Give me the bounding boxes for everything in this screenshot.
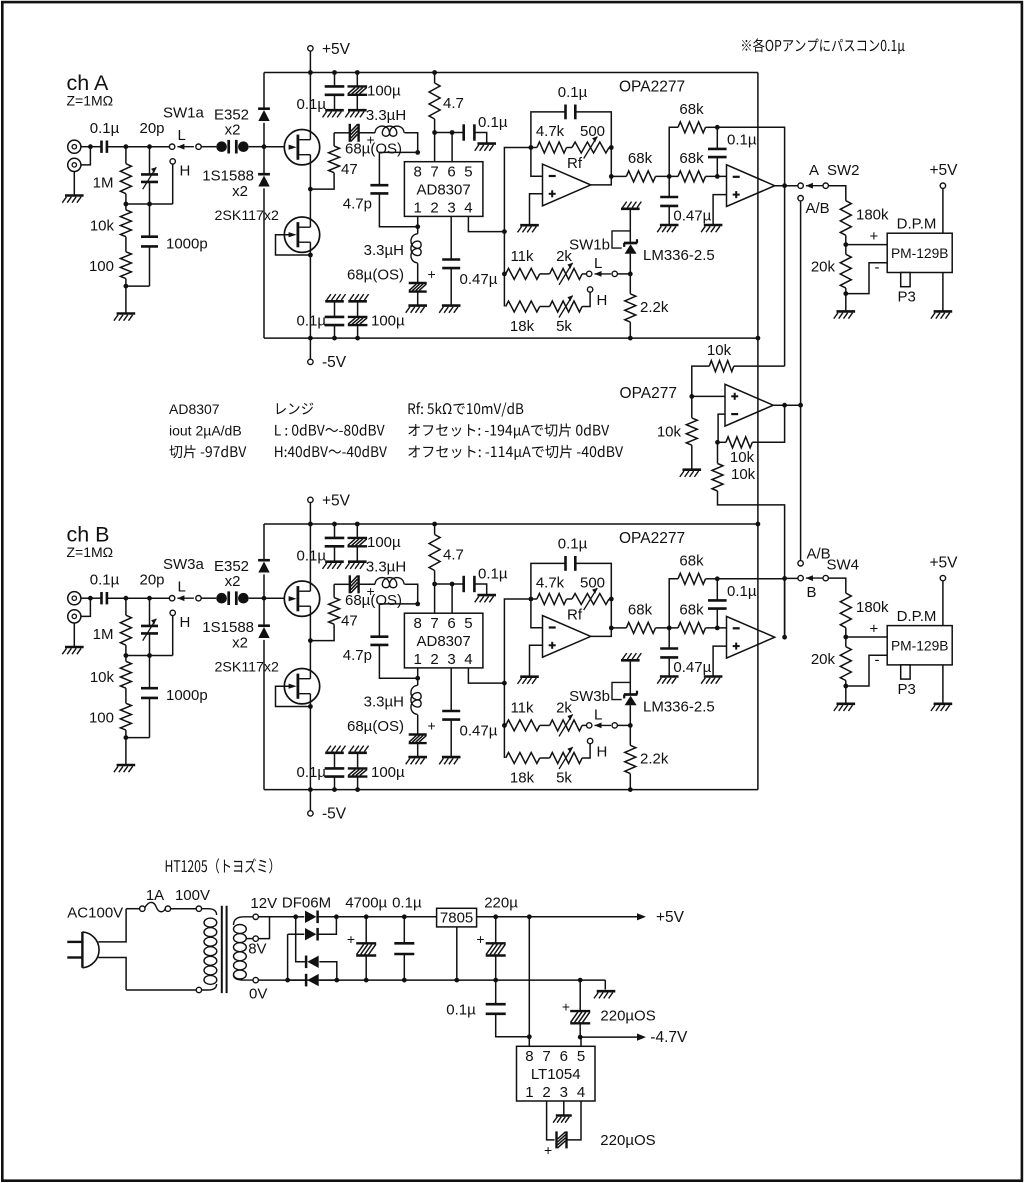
svg-text:H: H — [597, 292, 608, 309]
ground LT1054 pin3 — [553, 1116, 572, 1123]
wire jacks to input cap — [81, 144, 102, 165]
svg-text:4.7: 4.7 — [443, 95, 464, 112]
svg-text:SW3b: SW3b — [569, 688, 610, 705]
rail 7805 out — [477, 914, 641, 919]
wire E352 to input node — [263, 123, 265, 147]
resistor 10k feedback — [718, 405, 785, 466]
svg-text:+: + — [870, 228, 879, 245]
text AD8307 specs col1 — [169, 401, 246, 458]
ground jacks — [62, 196, 83, 203]
svg-text:Rf: Rf — [567, 607, 583, 624]
svg-text:OPA2277: OPA2277 — [619, 530, 685, 547]
svg-text:H: H — [180, 614, 191, 631]
ground attenuator — [114, 314, 135, 321]
capacitor 0.47u filter — [660, 176, 711, 225]
switch SW3a — [163, 556, 205, 631]
wire 2k to L contact — [582, 273, 586, 275]
ground op1 plus — [518, 225, 539, 232]
resistor 180k — [840, 201, 889, 236]
svg-text:5: 5 — [464, 164, 472, 181]
ground 100u top — [345, 562, 366, 569]
svg-text:+: + — [870, 620, 879, 637]
terminal -5V ch B — [308, 790, 347, 823]
wire attenuator H tap — [124, 164, 173, 210]
wire jacks to input cap — [81, 596, 102, 617]
rail -5V bottom — [264, 787, 758, 792]
text note bypass — [742, 38, 905, 54]
svg-text:SW1a: SW1a — [163, 105, 205, 122]
svg-text:11k: 11k — [510, 700, 534, 717]
svg-text:10k: 10k — [90, 669, 115, 686]
resistor 20k — [811, 254, 851, 288]
svg-text:SW3a: SW3a — [163, 556, 205, 573]
diode D1 bridge — [305, 911, 318, 924]
op-amp U1b OPA2277 — [727, 165, 775, 207]
ground 0.47u filter — [657, 225, 678, 232]
svg-text:0.1µ: 0.1µ — [297, 548, 327, 565]
svg-text:100µ: 100µ — [371, 764, 405, 781]
svg-text:1000p: 1000p — [166, 687, 208, 704]
resistor 68k feedback — [669, 553, 719, 628]
resistor 100 — [89, 252, 131, 279]
wire op1 minus input — [531, 148, 543, 177]
wire 10k to 100 — [125, 237, 127, 252]
wire 1S1588 to -5V rail — [263, 640, 265, 790]
terminal 8V — [248, 936, 266, 958]
resistor 2.2k — [625, 745, 669, 773]
svg-text:68µ(OS): 68µ(OS) — [347, 267, 404, 284]
svg-text:1: 1 — [414, 200, 422, 217]
wire E352 to input node — [263, 574, 265, 598]
svg-text:+: + — [562, 999, 570, 1015]
transistor Q1 2SK117 upper — [284, 73, 319, 165]
wire op1 plus to ground — [530, 194, 543, 225]
svg-text:6: 6 — [560, 1048, 568, 1065]
svg-text:DF06M: DF06M — [282, 895, 331, 912]
svg-text:0.47µ: 0.47µ — [673, 208, 711, 225]
svg-text:7: 7 — [542, 1048, 550, 1065]
capacitor 100u OS bottom — [348, 301, 405, 338]
wire input node to 1S1588 — [263, 599, 265, 626]
wire 11k to 2k — [540, 273, 550, 275]
svg-text:x2: x2 — [232, 183, 248, 200]
wire coil to pin8 node — [379, 584, 420, 606]
svg-text:2SK117x2: 2SK117x2 — [215, 660, 280, 676]
wire fuse to primary — [171, 887, 210, 909]
wire op2 plus to ground — [713, 195, 726, 225]
capacitor 220uOS out — [562, 980, 656, 1039]
svg-text:-5V: -5V — [322, 354, 347, 371]
svg-text:-4.7V: -4.7V — [650, 1029, 688, 1046]
wire pin7 row — [432, 130, 464, 162]
wire plug to transformer — [98, 909, 126, 990]
resistor 500 trimmer Rf — [567, 123, 614, 172]
capacitor 4.7p — [343, 604, 418, 678]
diode LM336-2.5 reference — [612, 231, 715, 264]
svg-text:68µ(OS): 68µ(OS) — [345, 592, 402, 609]
resistor 4.7k Rf — [529, 575, 567, 605]
svg-text:B: B — [807, 584, 817, 601]
capacitor 0.1u bottom — [297, 753, 345, 790]
svg-text:0.1µ: 0.1µ — [478, 114, 508, 131]
svg-text:2.2k: 2.2k — [640, 751, 669, 768]
wire clamp chain upper — [263, 73, 265, 109]
inductor 3.3uH upper — [366, 559, 406, 588]
svg-text:220µOS: 220µOS — [600, 1132, 655, 1149]
svg-text:2: 2 — [430, 651, 438, 668]
wire input row to SW — [107, 144, 169, 149]
svg-text:8: 8 — [525, 1048, 533, 1065]
capacitor 0.47u pin3 — [442, 216, 497, 305]
svg-text:PM-129B: PM-129B — [891, 638, 949, 653]
svg-text:100: 100 — [89, 258, 114, 275]
wire pin1 node — [415, 216, 420, 229]
svg-text:2: 2 — [542, 1084, 550, 1101]
wire op1 output — [591, 599, 614, 636]
wire FET2 gate loop — [276, 686, 313, 709]
wire FET1 source to node — [308, 606, 313, 643]
svg-text:68k: 68k — [679, 553, 704, 570]
ground 0.1u pin6 — [475, 595, 496, 602]
wire to op2 minus — [706, 626, 727, 631]
capacitor 68u OS lower — [347, 263, 436, 305]
wire ground to LM336 — [629, 209, 631, 243]
capacitor 0.1u pin6 — [464, 566, 508, 596]
svg-text:10k: 10k — [657, 424, 682, 441]
wire output — [773, 403, 803, 408]
wire input row to SW — [107, 596, 169, 601]
IC AD8307 — [404, 162, 483, 217]
svg-text:0.1µ: 0.1µ — [558, 84, 588, 101]
svg-text:1S1588: 1S1588 — [202, 619, 254, 636]
wire SW common to 180k — [829, 186, 846, 201]
resistor 4.7k Rf — [529, 123, 567, 153]
wire op1 plus to ground — [530, 645, 543, 676]
svg-text:20p: 20p — [139, 120, 164, 137]
svg-text:8: 8 — [414, 164, 422, 181]
svg-text:220µ: 220µ — [484, 895, 518, 912]
wire feedback to output — [717, 127, 784, 185]
ground meter — [931, 704, 952, 711]
svg-text:+5V: +5V — [929, 162, 958, 179]
svg-text:AD8307: AD8307 — [416, 182, 470, 199]
RCA jack J1 ch B — [68, 592, 81, 605]
capacitor 0.1u par 68k — [708, 579, 757, 628]
wire SW common to 180k — [829, 578, 846, 593]
svg-text:4.7p: 4.7p — [343, 196, 372, 213]
wire FET2 source to rail — [309, 694, 311, 790]
svg-text:1M: 1M — [93, 626, 114, 643]
RCA jack J2 ch B — [68, 610, 81, 623]
capacitor 20p variable — [139, 572, 164, 656]
svg-text:+5V: +5V — [322, 493, 351, 510]
wire FET1 source to node — [308, 155, 313, 192]
wire plus node — [689, 394, 725, 399]
wire 180k to plus — [843, 620, 887, 646]
svg-text:68k: 68k — [679, 101, 704, 118]
svg-text:H: H — [180, 163, 191, 180]
svg-text:100: 100 — [89, 710, 114, 727]
svg-text:2: 2 — [430, 200, 438, 217]
wire op2 plus to ground — [713, 646, 726, 676]
svg-text:2SK117x2: 2SK117x2 — [215, 208, 280, 224]
capacitor 0.1u bypass top — [297, 73, 345, 114]
ground 100u bottom — [348, 294, 368, 301]
wire FET2 gate loop — [276, 235, 313, 258]
capacitor 68u OS bead — [334, 575, 402, 609]
wire 18k to 5k — [540, 757, 550, 759]
wire minus to feedback — [715, 414, 725, 445]
wire CRD to clamp node — [249, 596, 267, 601]
svg-text:PM-129B: PM-129B — [891, 246, 949, 261]
arrow -4.7V out — [580, 1029, 688, 1046]
svg-text:12V: 12V — [250, 895, 277, 912]
resistor 2k trimmer — [550, 700, 583, 737]
capacitor 0.1u par 68k — [708, 127, 757, 176]
svg-text:68k: 68k — [628, 150, 653, 167]
svg-text:5: 5 — [577, 1048, 585, 1065]
resistor 5k trimmer — [550, 747, 583, 787]
svg-text:0.1µ: 0.1µ — [297, 96, 327, 113]
resistor 2.2k — [625, 294, 669, 322]
meter PM-129B — [887, 216, 952, 306]
rail PSU ground — [259, 978, 606, 983]
capacitor 0.1u input — [90, 572, 120, 605]
diode 1S1588 clamp x2 — [202, 168, 270, 201]
terminal +5V ch A — [308, 41, 351, 73]
capacitor 0.1u Rf loop — [531, 536, 611, 600]
svg-text:8V: 8V — [248, 941, 266, 958]
svg-text:0.1µ: 0.1µ — [727, 132, 757, 149]
capacitor 20p variable — [139, 120, 164, 204]
rail +5V top — [264, 70, 758, 75]
resistor 1M — [93, 599, 132, 646]
wire attenuator H tap — [124, 616, 173, 662]
ground op2 plus — [701, 225, 722, 232]
wire 68k junction — [656, 174, 679, 179]
wire 10k to 100 — [125, 688, 127, 703]
ground 0.1u bottom — [325, 294, 345, 301]
text ch B title — [67, 523, 114, 561]
switch SW1a — [163, 105, 205, 180]
wire input node to 1S1588 — [263, 147, 265, 174]
resistor 11k — [506, 248, 540, 279]
svg-text:0.47µ: 0.47µ — [460, 271, 498, 288]
IC 7805 regulator — [437, 908, 477, 980]
svg-text:3: 3 — [447, 651, 455, 668]
resistor 18k — [506, 753, 540, 787]
svg-text:+5V: +5V — [656, 909, 685, 926]
capacitor 0.47u pin3 — [442, 668, 497, 757]
svg-text:0.1µ: 0.1µ — [297, 313, 327, 330]
svg-text:500: 500 — [580, 575, 605, 592]
resistor 68k series1 — [626, 150, 655, 182]
capacitor 0.1u lt1054 — [446, 980, 529, 1037]
resistor 10k attenuator — [90, 661, 132, 688]
transistor Q2 2SK117 lower — [215, 189, 320, 252]
svg-text:0.1µ: 0.1µ — [558, 536, 588, 553]
svg-text:+5V: +5V — [322, 41, 351, 58]
svg-text:5k: 5k — [556, 770, 572, 787]
ground 0.1u bypass top — [323, 562, 344, 569]
svg-text:2.2k: 2.2k — [640, 299, 669, 316]
ground op2 plus — [701, 677, 722, 684]
resistor 1M — [93, 147, 132, 194]
resistor 100 — [89, 703, 131, 730]
ground 0.1u pin6 — [475, 144, 496, 151]
RCA jack J2 ch A — [68, 158, 81, 171]
resistor 5k trimmer — [550, 296, 583, 336]
diode E352 x2 CRD pair — [214, 558, 249, 605]
svg-text:5: 5 — [464, 615, 472, 632]
svg-text:180k: 180k — [856, 207, 889, 224]
svg-text:7: 7 — [430, 615, 438, 632]
capacitor 1000p — [126, 656, 208, 738]
wire gate FET1 — [264, 597, 289, 599]
text HT1205 transformer title — [166, 858, 273, 873]
svg-text:7: 7 — [430, 164, 438, 181]
transformer T1 primary — [126, 906, 217, 993]
diode 1S1588 clamp x2 — [202, 619, 270, 652]
svg-text:10k: 10k — [707, 342, 732, 359]
RCA jack J1 ch A — [68, 140, 81, 153]
svg-text:OPA277: OPA277 — [620, 385, 677, 402]
resistor 2k trimmer — [550, 248, 583, 285]
svg-text:68µ(OS): 68µ(OS) — [345, 141, 402, 158]
rail PSU plus — [336, 914, 436, 919]
svg-text:6: 6 — [447, 164, 455, 181]
capacitor 0.47u filter — [660, 628, 711, 677]
resistor 10k to B — [712, 442, 785, 578]
ground 100u bottom — [348, 746, 368, 753]
wire op1 output — [591, 148, 614, 185]
svg-text:AD8307: AD8307 — [416, 633, 470, 650]
inductor 3.3uH lower — [364, 227, 421, 263]
svg-text:P3: P3 — [898, 289, 916, 306]
IC LT1054 — [517, 1046, 596, 1101]
svg-text:x2: x2 — [232, 635, 248, 652]
resistor 68k series1 — [626, 602, 655, 634]
AC plug — [67, 905, 123, 968]
wire pin3 ground — [563, 1101, 565, 1116]
op-amp U1a OPA2277 — [543, 530, 686, 657]
svg-text:L: L — [178, 579, 186, 596]
capacitor 68u OS bead — [334, 124, 402, 158]
svg-text:4.7k: 4.7k — [536, 575, 565, 592]
wire ground to LM336 — [629, 660, 631, 694]
svg-text:+: + — [544, 1142, 552, 1158]
wire chA out down — [782, 183, 787, 366]
wire LM336 to node — [629, 254, 631, 294]
transformer core — [222, 906, 227, 993]
resistor 500 trimmer Rf — [567, 575, 614, 624]
resistor 68k feedback — [669, 101, 719, 176]
resistor 11k — [506, 700, 540, 731]
wire 18k to 5k — [540, 306, 550, 308]
svg-text:10k: 10k — [730, 449, 755, 466]
text DF06M — [282, 895, 331, 912]
wire 2.2k to rail — [629, 774, 631, 790]
terminal -5V ch A — [308, 338, 347, 371]
capacitor 100u OS top — [348, 73, 402, 111]
ground 0.1u bottom — [325, 746, 345, 753]
fuse 1A — [140, 887, 171, 912]
svg-text:0.1µ: 0.1µ — [727, 583, 757, 600]
diode E352 x2 CRD pair — [214, 107, 249, 154]
terminal 0V — [249, 977, 267, 1002]
svg-text:+: + — [428, 266, 436, 282]
wire SWb common to node — [618, 723, 633, 728]
wire pin1 node — [415, 668, 420, 681]
diode E352 clamp to +5V — [258, 109, 270, 121]
svg-text:11k: 11k — [510, 248, 534, 265]
arrow +5V out — [637, 909, 685, 926]
text Rf col3 — [408, 402, 623, 460]
wire pin7 row — [432, 582, 464, 614]
wire SW common to CRD — [201, 146, 216, 148]
inductor 3.3uH lower — [364, 678, 421, 714]
wire op1 minus input — [531, 599, 543, 628]
op-amp U1a OPA2277 — [543, 79, 686, 206]
capacitor 0.1u pin6 — [464, 114, 508, 144]
capacitor 100u OS bottom — [348, 753, 405, 790]
svg-text:x2: x2 — [225, 573, 241, 590]
resistor 47 — [310, 584, 357, 640]
svg-text:+5V: +5V — [929, 554, 958, 571]
wire 100 to ground — [124, 279, 129, 314]
svg-text:68k: 68k — [628, 602, 653, 619]
svg-text:1S1588: 1S1588 — [202, 168, 254, 185]
wire 2.2k to rail — [629, 322, 631, 338]
wire 68k junction — [656, 626, 679, 631]
ground 68u lower — [406, 757, 427, 764]
resistor 4.7 — [429, 73, 464, 133]
wire FET2 source to rail — [309, 242, 311, 338]
svg-text:0V: 0V — [249, 986, 267, 1003]
meter PM-129B — [887, 608, 952, 698]
svg-text:5k: 5k — [556, 318, 572, 335]
svg-text:18k: 18k — [510, 770, 535, 787]
svg-text:7805: 7805 — [440, 910, 473, 927]
diode LM336-2.5 reference — [612, 682, 715, 715]
resistor 68k series2 — [678, 150, 706, 182]
switch SW2 — [798, 162, 860, 217]
wire 1S1588 to -5V rail — [263, 188, 265, 338]
wire 2k to L contact — [582, 724, 586, 726]
svg-text:1: 1 — [525, 1084, 533, 1101]
wire SW common to CRD — [201, 597, 216, 599]
capacitor 220uOS flying — [544, 1101, 656, 1158]
ground meter — [931, 311, 952, 318]
capacitor 1000p — [126, 204, 208, 286]
wire out row to 68k — [611, 175, 626, 177]
svg-text:6: 6 — [447, 615, 455, 632]
rail +5V top — [264, 522, 758, 527]
wire gnd rail to ground — [604, 980, 606, 989]
svg-text:3.3µH: 3.3µH — [366, 559, 406, 576]
svg-text:0.1µ: 0.1µ — [446, 1002, 476, 1019]
svg-text:LM336-2.5: LM336-2.5 — [643, 699, 715, 716]
ground 10k — [680, 470, 701, 477]
svg-text:SW4: SW4 — [827, 556, 860, 573]
capacitor 4700u — [345, 895, 387, 981]
svg-text:0.1µ: 0.1µ — [478, 566, 508, 583]
svg-text:3.3µH: 3.3µH — [364, 694, 404, 711]
op-amp U3 OPA277 — [620, 384, 774, 426]
resistor 68k series2 — [678, 602, 706, 634]
ground 100u top — [345, 110, 366, 117]
ground jacks — [62, 647, 83, 654]
